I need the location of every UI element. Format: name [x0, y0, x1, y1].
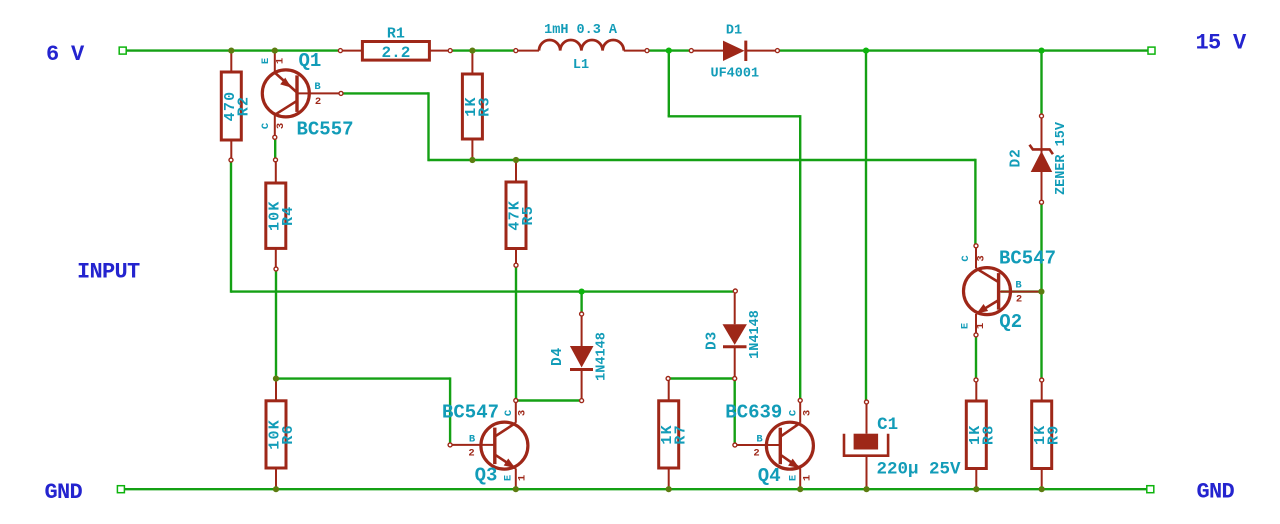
- svg-text:B: B: [756, 434, 763, 446]
- svg-text:D4: D4: [550, 347, 566, 366]
- svg-text:2: 2: [468, 448, 474, 460]
- svg-text:GND: GND: [45, 480, 83, 505]
- svg-text:1: 1: [275, 58, 287, 64]
- svg-text:D3: D3: [705, 331, 721, 350]
- svg-text:BC547: BC547: [442, 402, 499, 424]
- svg-text:2: 2: [753, 448, 759, 460]
- svg-text:D1: D1: [726, 24, 742, 39]
- svg-text:B: B: [314, 81, 321, 93]
- svg-text:3: 3: [517, 410, 529, 416]
- svg-text:BC557: BC557: [297, 119, 354, 141]
- svg-text:1: 1: [517, 475, 529, 481]
- svg-text:3: 3: [802, 410, 814, 416]
- svg-text:E: E: [503, 475, 515, 481]
- svg-text:Q1: Q1: [299, 50, 322, 72]
- svg-text:L1: L1: [573, 58, 589, 73]
- svg-text:Q2: Q2: [999, 311, 1022, 333]
- svg-text:R6: R6: [280, 424, 297, 444]
- svg-text:ZENER 15V: ZENER 15V: [1054, 121, 1069, 195]
- svg-text:E: E: [788, 475, 800, 481]
- svg-text:B: B: [469, 434, 476, 446]
- svg-text:R5: R5: [520, 205, 537, 225]
- svg-text:Q4: Q4: [758, 465, 781, 487]
- svg-text:C: C: [503, 409, 515, 416]
- svg-text:R1: R1: [387, 26, 405, 43]
- svg-text:2: 2: [1016, 294, 1022, 306]
- svg-text:3: 3: [976, 255, 988, 261]
- svg-text:BC639: BC639: [725, 402, 782, 424]
- svg-text:C1: C1: [877, 415, 898, 435]
- svg-text:1N4148: 1N4148: [748, 310, 763, 359]
- svg-text:R4: R4: [280, 205, 297, 225]
- svg-text:1: 1: [975, 323, 987, 329]
- svg-text:R9: R9: [1046, 425, 1063, 445]
- svg-text:1N4148: 1N4148: [595, 332, 610, 381]
- svg-text:2.2: 2.2: [381, 44, 410, 62]
- svg-text:D2: D2: [1009, 148, 1025, 167]
- svg-text:6 V: 6 V: [46, 42, 85, 67]
- svg-text:R3: R3: [476, 96, 493, 116]
- svg-text:1mH 0.3 A: 1mH 0.3 A: [544, 23, 618, 38]
- svg-text:C: C: [260, 122, 272, 129]
- svg-text:1: 1: [802, 475, 814, 481]
- svg-text:BC547: BC547: [999, 248, 1056, 270]
- svg-text:UF4001: UF4001: [710, 67, 759, 82]
- svg-text:GND: GND: [1197, 480, 1235, 505]
- svg-text:B: B: [1015, 280, 1022, 292]
- svg-text:2: 2: [315, 96, 321, 108]
- svg-text:220µ 25V: 220µ 25V: [876, 460, 961, 480]
- svg-text:E: E: [260, 58, 272, 64]
- svg-text:E: E: [960, 323, 972, 329]
- svg-text:INPUT: INPUT: [77, 260, 140, 285]
- svg-text:C: C: [960, 255, 972, 262]
- svg-text:3: 3: [275, 123, 287, 129]
- svg-text:C: C: [788, 409, 800, 416]
- svg-text:15 V: 15 V: [1196, 31, 1248, 56]
- svg-text:R2: R2: [235, 96, 252, 116]
- svg-text:R8: R8: [980, 425, 997, 445]
- svg-text:R7: R7: [673, 424, 690, 444]
- svg-text:Q3: Q3: [475, 465, 498, 487]
